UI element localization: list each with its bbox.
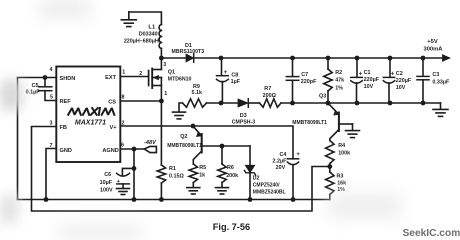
svg-text:CS: CS	[108, 99, 116, 105]
inductor L1	[124, 25, 162, 49]
node: C8 bottom junction dot	[219, 101, 224, 106]
svg-text:AGND: AGND	[102, 148, 118, 154]
svg-text:Q3: Q3	[319, 93, 326, 99]
svg-text:L1: L1	[148, 25, 156, 31]
svg-text:SeekIC.com: SeekIC.com	[403, 228, 460, 239]
wire: L1 to switch node	[160, 49, 162, 59]
svg-text:R4: R4	[338, 143, 345, 149]
wire: R9 to D3	[207, 102, 239, 104]
transistor Q3 MMBT8099LT1 (PNP)	[292, 93, 352, 140]
svg-text:-48V: -48V	[144, 140, 157, 146]
wire: AGND down to -48V rail	[133, 149, 135, 200]
svg-text:MMBT8099LT1: MMBT8099LT1	[167, 143, 202, 149]
net tag -48V	[144, 140, 157, 152]
capacitor C4 2.2uF 20V	[272, 152, 300, 199]
svg-text:+: +	[359, 72, 363, 78]
diode D3 CMPSH-3	[232, 99, 255, 126]
wire: AGND pin to -48V tag	[120, 147, 144, 152]
resistor R2 47k 1%	[324, 58, 344, 103]
wire: ground to L1 top	[129, 12, 162, 25]
capacitor C2 220uF 10V	[383, 58, 412, 103]
svg-text:47k: 47k	[335, 78, 344, 84]
wire: GND pin to -48V rail	[46, 149, 56, 200]
wire: FB to feedback line (line 2)	[32, 127, 330, 212]
svg-text:MMBT8099LT1: MMBT8099LT1	[292, 120, 327, 126]
op-amp U1 MAX1771 (IC box)	[56, 67, 120, 163]
capacitor C8 1uF	[217, 58, 241, 103]
svg-text:1µF: 1µF	[231, 79, 241, 85]
svg-text:R3: R3	[337, 173, 344, 179]
wire: D3 to R7	[248, 102, 259, 104]
junction dots on -48V rail	[44, 197, 296, 202]
resistor R4 100k	[326, 141, 351, 167]
svg-text:1%: 1%	[335, 85, 343, 91]
watermark SeekIC.com	[403, 228, 460, 239]
svg-text:CMPSH-3: CMPSH-3	[232, 120, 255, 126]
capacitor C1 220uF 10V	[351, 58, 380, 103]
svg-text:4: 4	[50, 67, 53, 73]
svg-text:300mA: 300mA	[423, 47, 443, 53]
svg-text:C1: C1	[364, 70, 371, 76]
svg-text:+: +	[296, 152, 300, 158]
ground G3 (R9 left)	[173, 103, 186, 119]
resistor R3 16k 1%	[326, 167, 347, 200]
zener diode D2 CMPZ5240/MMBZ5240BL	[244, 146, 285, 200]
svg-text:C6: C6	[104, 172, 111, 178]
svg-text:MBRS1100T3: MBRS1100T3	[172, 49, 205, 55]
svg-text:GND: GND	[60, 148, 72, 154]
svg-text:6: 6	[121, 143, 124, 149]
node: switch node junction dot	[159, 56, 164, 61]
svg-text:C5: C5	[32, 83, 39, 89]
svg-text:D03340: D03340	[139, 32, 158, 38]
svg-text:10µF: 10µF	[100, 180, 113, 186]
svg-text:10V: 10V	[396, 85, 406, 91]
svg-text:200k: 200k	[226, 173, 238, 179]
svg-text:220µF: 220µF	[396, 78, 412, 84]
wire: EXT pin to Q1 gate	[120, 70, 148, 77]
svg-text:C7: C7	[301, 72, 308, 78]
wire: switch node to D1	[161, 57, 186, 59]
svg-text:FB: FB	[60, 125, 67, 131]
ground G1 (top left, inductor return)	[121, 12, 136, 27]
svg-text:0.15Ω: 0.15Ω	[169, 173, 184, 179]
svg-text:20V: 20V	[276, 165, 286, 171]
svg-text:8: 8	[122, 94, 125, 100]
junction dots on +5V rail	[219, 56, 426, 61]
svg-text:+5V: +5V	[427, 39, 438, 45]
svg-text:220µH–680µH: 220µH–680µH	[124, 38, 159, 44]
svg-text:V+: V+	[110, 125, 118, 131]
capacitor C7 220pF	[286, 58, 317, 103]
svg-text:1: 1	[164, 91, 167, 97]
svg-text:D2: D2	[253, 175, 260, 181]
capacitor C6 10uF 100V	[100, 166, 137, 193]
svg-text:220µF: 220µF	[364, 77, 380, 83]
ground G2 (below C6)	[117, 189, 130, 195]
ground G7 (below R6)	[216, 188, 229, 194]
svg-text:200Ω: 200Ω	[263, 93, 277, 99]
svg-text:2.2µF: 2.2µF	[272, 159, 287, 165]
node: R4/R3 feedback junction dot	[327, 164, 332, 169]
ground G5 (Q3 base)	[346, 124, 360, 138]
svg-text:C4: C4	[279, 152, 286, 158]
wire: Q1 source to R1	[160, 101, 162, 165]
svg-text:16k: 16k	[337, 180, 346, 186]
resistor R5 1k	[189, 164, 206, 187]
resistor R6 200k	[218, 144, 238, 188]
svg-text:1: 1	[122, 70, 125, 76]
resistor R9 5.1k	[183, 84, 207, 107]
svg-text:SHDN: SHDN	[60, 76, 76, 82]
wire: -48V bottom rail (line 1)	[18, 199, 330, 201]
U1 pin numbers	[50, 67, 125, 149]
wire: CS pin to Q1 source	[120, 100, 161, 102]
svg-text:C3: C3	[432, 72, 439, 78]
wire: V+ pin line to C4	[120, 126, 293, 159]
svg-text:EXT: EXT	[105, 75, 116, 81]
capacitor C3 0.33uF	[417, 58, 450, 103]
svg-text:Q2: Q2	[180, 134, 187, 140]
svg-text:MMBZ5240BL: MMBZ5240BL	[253, 189, 286, 195]
node: Q1 source / CS junction dot	[159, 99, 164, 104]
node: Q2 emitter junction dot	[191, 124, 196, 129]
svg-text:R7: R7	[264, 86, 271, 92]
svg-text:1k: 1k	[199, 173, 205, 179]
capacitor C5 0.1uF	[26, 75, 57, 100]
caption Fig. 7-56	[213, 222, 250, 232]
junction dots on 0V line	[290, 101, 425, 106]
svg-text:R2: R2	[335, 70, 342, 76]
svg-text:R5: R5	[199, 165, 206, 171]
svg-text:R1: R1	[169, 166, 176, 172]
svg-text:R9: R9	[193, 84, 200, 90]
svg-text:MTD6N10: MTD6N10	[168, 76, 192, 82]
svg-text:5.1k: 5.1k	[192, 90, 203, 96]
svg-text:D3: D3	[240, 113, 247, 119]
svg-text:Fig. 7-56: Fig. 7-56	[213, 222, 250, 232]
resistor R1 0.15 ohm	[157, 165, 184, 200]
wire: SHDN to -48V rail (left vertical)	[18, 78, 57, 200]
transistor Q2 MMBT8099LT1 (PNP)	[167, 126, 250, 164]
svg-text:100V: 100V	[100, 187, 113, 193]
wire: +5V rail	[194, 57, 447, 59]
svg-text:Q1: Q1	[168, 70, 175, 76]
svg-text:3: 3	[163, 62, 166, 68]
svg-text:MAX1771: MAX1771	[75, 119, 106, 126]
svg-text:CMPZ5240/: CMPZ5240/	[253, 182, 280, 188]
ground G6 (below R5)	[187, 188, 200, 194]
svg-text:0.1µF: 0.1µF	[26, 89, 41, 95]
+5V output arrow	[423, 39, 450, 62]
svg-text:100k: 100k	[338, 151, 350, 157]
svg-text:C8: C8	[231, 72, 238, 78]
resistor R7 200 ohm	[260, 86, 282, 107]
svg-text:0.33µF: 0.33µF	[432, 79, 450, 85]
wire: 0V line R7 to output ground	[281, 102, 441, 104]
svg-text:10V: 10V	[364, 84, 374, 90]
svg-text:1%: 1%	[337, 187, 345, 193]
node: Q3 emitter junction dot	[326, 101, 331, 106]
transistor Q1 MTD6N10 (N-MOSFET)	[139, 58, 191, 101]
svg-text:+: +	[391, 72, 395, 78]
svg-text:+: +	[224, 70, 228, 76]
svg-text:REF: REF	[60, 99, 72, 105]
ground G4 (output ground, right end)	[433, 103, 448, 116]
svg-text:220pF: 220pF	[301, 79, 317, 85]
svg-text:R6: R6	[227, 165, 234, 171]
diode D1 MBRS1100T3	[172, 43, 205, 62]
svg-text:C2: C2	[396, 71, 403, 77]
